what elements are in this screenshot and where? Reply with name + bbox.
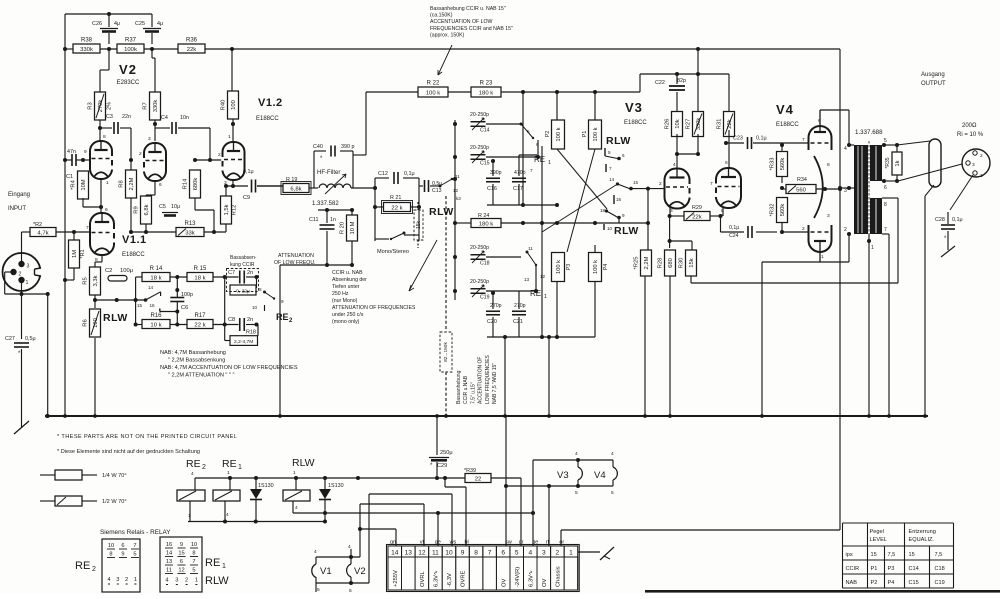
svg-text:C6: C6 [181, 305, 188, 311]
svg-text:270k: 270k [98, 100, 104, 113]
svg-text:100 k: 100 k [593, 127, 599, 141]
svg-text:20-250p: 20-250p [470, 279, 489, 285]
svg-text:6: 6 [884, 185, 887, 191]
svg-text:9: 9 [461, 549, 465, 556]
svg-text:560k: 560k [780, 158, 786, 171]
svg-text:R27: R27 [686, 119, 692, 130]
svg-text:4: 4 [226, 512, 229, 518]
svg-text:1: 1 [228, 134, 231, 140]
svg-text:100: 100 [231, 100, 237, 110]
svg-text:RLW: RLW [606, 135, 631, 147]
svg-text:100 k: 100 k [556, 127, 562, 141]
svg-text:" 2,2M ATTENUATION ": " 2,2M ATTENUATION " " " [168, 373, 234, 379]
svg-text:R34: R34 [797, 177, 807, 183]
svg-text:22n: 22n [122, 114, 131, 120]
svg-text:C4: C4 [161, 115, 168, 121]
svg-text:14: 14 [166, 551, 172, 557]
svg-text:R5: R5 [83, 277, 89, 284]
svg-text:E188CC: E188CC [122, 252, 145, 258]
svg-text:k3: k3 [456, 196, 461, 201]
svg-text:*R35: *R35 [885, 157, 891, 168]
svg-text:20-250p: 20-250p [470, 112, 489, 118]
svg-text:C23: C23 [733, 136, 743, 142]
svg-text:1: 1 [26, 280, 29, 286]
svg-text:15: 15 [871, 552, 877, 558]
svg-text:5: 5 [515, 549, 519, 556]
svg-text:4: 4 [528, 549, 532, 556]
svg-text:0,1μ: 0,1μ [404, 171, 415, 177]
svg-text:NAB: 4,7M ACCENTUATION OF LO: NAB: 4,7M ACCENTUATION OF LOW FREQUENCIE… [160, 365, 298, 371]
svg-text:270p: 270p [514, 303, 526, 309]
svg-text:(nur Mono): (nur Mono) [332, 298, 358, 304]
svg-text:CCIR u. NAB: CCIR u. NAB [332, 270, 363, 276]
svg-text:560: 560 [796, 187, 807, 193]
svg-text:10μ: 10μ [171, 204, 180, 210]
svg-text:1S130: 1S130 [328, 483, 344, 489]
svg-text:C27: C27 [5, 336, 15, 342]
svg-text:22 k: 22 k [194, 322, 205, 328]
svg-text:V2: V2 [354, 566, 366, 577]
svg-text:E188CC: E188CC [776, 122, 799, 128]
svg-text:RE: RE [276, 312, 289, 322]
svg-text:RLW: RLW [429, 206, 454, 218]
svg-text:NAB: 4,7M Bassanhebung: NAB: 4,7M Bassanhebung [160, 350, 226, 356]
svg-text:180 k: 180 k [479, 90, 493, 96]
svg-text:3: 3 [148, 136, 151, 142]
svg-text:Bassabsen-: Bassabsen- [230, 255, 257, 261]
svg-text:E283CC: E283CC [117, 80, 140, 86]
svg-text:V4: V4 [594, 470, 606, 481]
svg-text:9: 9 [84, 149, 87, 155]
svg-text:10n: 10n [180, 115, 189, 121]
svg-text:4μ: 4μ [114, 21, 120, 27]
svg-text:33k: 33k [185, 230, 195, 236]
svg-text:2: 2 [19, 272, 22, 278]
svg-text:22k: 22k [187, 47, 197, 53]
svg-text:C16: C16 [487, 186, 497, 192]
svg-text:4: 4 [295, 505, 298, 511]
svg-text:1S130: 1S130 [258, 483, 274, 489]
svg-text:C9: C9 [243, 195, 250, 201]
svg-text:C28: C28 [935, 217, 945, 223]
svg-text:250μ: 250μ [440, 450, 453, 456]
svg-text:3: 3 [542, 549, 546, 556]
svg-text:4: 4 [673, 162, 676, 168]
svg-text:1: 1 [548, 160, 551, 166]
svg-text:0,1μ: 0,1μ [243, 169, 254, 175]
svg-text:22k: 22k [727, 119, 733, 128]
svg-text:ATTENUATION: ATTENUATION [278, 253, 314, 259]
svg-text:1M: 1M [72, 250, 78, 258]
svg-text:Bassanhebung: Bassanhebung [456, 370, 462, 404]
svg-text:R16: R16 [150, 313, 162, 319]
svg-text:22 k: 22 k [391, 205, 402, 211]
svg-text:R28: R28 [658, 258, 664, 269]
svg-text:7: 7 [802, 137, 805, 143]
svg-text:6: 6 [622, 153, 625, 158]
svg-text:7,5" u.15": 7,5" u.15" [470, 382, 476, 404]
svg-text:9: 9 [622, 213, 625, 218]
svg-text:1: 1 [238, 464, 242, 471]
svg-text:EQUALIZ.: EQUALIZ. [909, 537, 935, 543]
svg-text:7: 7 [488, 549, 492, 556]
svg-text:10: 10 [191, 542, 197, 548]
svg-text:4: 4 [611, 451, 614, 457]
svg-text:Ri = 10 %: Ri = 10 % [957, 132, 984, 138]
svg-text:7: 7 [710, 181, 713, 187]
svg-text:R31: R31 [717, 119, 723, 130]
svg-text:7: 7 [86, 225, 89, 231]
svg-text:12: 12 [418, 549, 426, 556]
svg-text:6: 6 [121, 543, 124, 549]
svg-text:2: 2 [125, 577, 128, 583]
svg-text:1: 1 [227, 470, 230, 476]
svg-text:12: 12 [178, 568, 184, 574]
svg-text:C18: C18 [480, 261, 490, 267]
svg-text:R 22: R 22 [427, 81, 440, 87]
svg-text:2,2M: 2,2M [129, 177, 135, 190]
svg-text:100μ: 100μ [120, 268, 133, 274]
svg-text:8: 8 [259, 287, 262, 292]
svg-text:P1: P1 [871, 566, 878, 572]
svg-text:RE: RE [530, 289, 541, 298]
svg-text:11: 11 [528, 246, 533, 251]
svg-text:C29: C29 [437, 463, 447, 469]
svg-text:10M: 10M [81, 179, 87, 190]
svg-text:5: 5 [611, 490, 614, 496]
svg-text:kung CCIR: kung CCIR [230, 262, 255, 268]
svg-text:14: 14 [609, 177, 615, 182]
svg-text:C17: C17 [513, 186, 523, 192]
svg-text:ips: ips [846, 552, 853, 558]
svg-text:8: 8 [103, 134, 106, 140]
svg-text:1: 1 [569, 549, 573, 556]
svg-text:+255V: +255V [393, 570, 399, 587]
svg-text:Mono/Stereo: Mono/Stereo [377, 249, 409, 255]
svg-text:R40: R40 [221, 100, 227, 111]
svg-text:R17: R17 [194, 313, 206, 319]
svg-text:R14: R14 [183, 178, 189, 189]
svg-text:15: 15 [633, 180, 639, 185]
svg-text:6,8k: 6,8k [290, 186, 301, 192]
svg-text:2: 2 [844, 227, 847, 233]
svg-text:(mono only): (mono only) [332, 319, 360, 325]
svg-text:C15: C15 [909, 580, 919, 586]
svg-text:2: 2 [185, 578, 188, 584]
svg-text:6: 6 [818, 118, 821, 124]
svg-text:10 k: 10 k [150, 322, 161, 328]
svg-text:R29: R29 [692, 205, 702, 211]
svg-text:12: 12 [453, 188, 459, 193]
svg-text:20-250p: 20-250p [470, 245, 489, 251]
svg-text:9: 9 [121, 552, 124, 558]
svg-text:4: 4 [191, 471, 194, 477]
svg-text:V1.1: V1.1 [122, 234, 147, 246]
svg-text:RLW: RLW [614, 225, 639, 237]
svg-text:C5: C5 [159, 204, 166, 210]
svg-text:6: 6 [501, 549, 505, 556]
svg-text:R7: R7 [143, 102, 149, 109]
svg-text:C15: C15 [480, 161, 490, 167]
svg-text:1: 1 [222, 563, 226, 570]
svg-text:16: 16 [150, 303, 156, 308]
svg-text:V2: V2 [119, 62, 137, 77]
svg-text:1,5k: 1,5k [224, 204, 230, 215]
svg-text:R30: R30 [679, 258, 685, 269]
svg-text:11: 11 [166, 568, 172, 574]
svg-text:P3: P3 [888, 566, 895, 572]
svg-text:680k: 680k [193, 178, 199, 191]
svg-text:Ausgang: Ausgang [921, 72, 945, 78]
svg-text:7: 7 [884, 227, 887, 233]
svg-text:3: 3 [116, 577, 119, 583]
svg-text:Siemens Relais - RELAY: Siemens Relais - RELAY [100, 529, 171, 536]
svg-text:OUTPUT: OUTPUT [921, 81, 946, 87]
svg-text:1: 1 [544, 294, 547, 300]
svg-text:3: 3 [827, 213, 830, 219]
svg-text:8: 8 [474, 549, 478, 556]
svg-text:INPUT: INPUT [8, 206, 26, 212]
svg-text:Chassis: Chassis [556, 566, 562, 587]
svg-text:7: 7 [192, 559, 195, 565]
svg-text:1: 1 [106, 180, 109, 186]
svg-text:9: 9 [281, 299, 284, 304]
svg-text:*R32: *R32 [770, 204, 776, 217]
svg-text:HF-Filter: HF-Filter [317, 170, 340, 176]
svg-text:Absenkung der: Absenkung der [332, 277, 367, 283]
svg-text:*R25: *R25 [634, 257, 640, 270]
svg-text:ACCENTUATION OF LOW: ACCENTUATION OF LOW [430, 19, 493, 25]
svg-text:12: 12 [540, 274, 546, 279]
svg-text:FREQUENCIES CCIR and NAB 1: FREQUENCIES CCIR and NAB 15" [430, 26, 513, 32]
svg-text:R36: R36 [186, 38, 198, 44]
svg-text:R 20: R 20 [340, 222, 346, 234]
svg-text:3: 3 [175, 578, 178, 584]
svg-text:330k: 330k [80, 47, 93, 53]
svg-text:4: 4 [107, 577, 110, 583]
svg-text:390 p: 390 p [341, 144, 355, 150]
svg-text:RLW: RLW [292, 457, 315, 469]
svg-text:RE: RE [534, 155, 545, 164]
svg-text:4: 4 [314, 549, 317, 555]
svg-text:C11: C11 [309, 217, 319, 223]
svg-text:* THESE PARTS ARE NOT ON: * THESE PARTS ARE NOT ON THE PRINTED CIR… [57, 434, 237, 440]
svg-text:*R1: *R1 [80, 250, 86, 259]
svg-text:-24V(R): -24V(R) [515, 567, 521, 587]
svg-text:5: 5 [575, 490, 578, 496]
svg-text:200Ω: 200Ω [962, 123, 977, 129]
svg-text:C25: C25 [135, 21, 145, 27]
svg-text:4: 4 [348, 544, 351, 550]
svg-text:P4: P4 [603, 264, 609, 271]
svg-text:18 k: 18 k [150, 275, 161, 281]
svg-text:560k: 560k [780, 204, 786, 217]
svg-text:ATTENUATION OF FREQUENCIES: ATTENUATION OF FREQUENCIES [332, 305, 416, 311]
svg-text:3: 3 [27, 264, 30, 270]
svg-text:0,1μ: 0,1μ [952, 217, 963, 223]
svg-text:" 2,2M Bassabsenkung: " 2,2M Bassabsenkung [168, 358, 225, 364]
svg-text:270p: 270p [490, 303, 502, 309]
svg-text:82...150k: 82...150k [443, 342, 449, 362]
svg-text:100 k: 100 k [593, 260, 599, 274]
svg-text:(ca.150K): (ca.150K) [430, 13, 453, 19]
svg-text:V4: V4 [776, 102, 794, 117]
svg-text:P2: P2 [545, 131, 551, 138]
svg-text:6: 6 [180, 559, 183, 565]
svg-text:15: 15 [178, 551, 184, 557]
svg-text:7,5: 7,5 [935, 552, 943, 558]
svg-text:7: 7 [133, 543, 136, 549]
svg-text:under 250 c/s: under 250 c/s [332, 312, 364, 318]
svg-text:C13: C13 [432, 188, 442, 194]
svg-text:15k: 15k [416, 220, 422, 229]
svg-text:9: 9 [180, 542, 183, 548]
svg-text:C12: C12 [378, 171, 388, 177]
svg-text:1/2 W 70°: 1/2 W 70° [102, 499, 127, 505]
svg-text:1: 1 [293, 470, 296, 476]
svg-text:180 k: 180 k [479, 221, 493, 227]
svg-text:2n: 2n [247, 317, 253, 323]
svg-text:R37: R37 [125, 38, 137, 44]
svg-text:2: 2 [202, 464, 206, 471]
svg-text:OV: OV [542, 578, 548, 587]
svg-text:250 Hz: 250 Hz [332, 291, 349, 297]
svg-text:4: 4 [844, 146, 847, 152]
svg-text:5: 5 [317, 587, 320, 593]
svg-text:330k: 330k [153, 100, 159, 113]
svg-text:OVRL: OVRL [420, 570, 426, 587]
svg-text:LOW FREQUENCIES: LOW FREQUENCIES [485, 354, 491, 404]
svg-text:1.337.688: 1.337.688 [855, 129, 883, 136]
svg-text:3: 3 [844, 188, 847, 194]
svg-text:2n: 2n [247, 270, 253, 276]
svg-text:*R4: *R4 [71, 179, 77, 189]
svg-text:V1: V1 [320, 566, 332, 577]
svg-text:5: 5 [133, 552, 136, 558]
svg-text:P4: P4 [888, 580, 895, 586]
svg-text:(approx. 150K): (approx. 150K) [430, 32, 465, 38]
svg-text:10: 10 [445, 549, 453, 556]
svg-text:22: 22 [475, 476, 482, 482]
svg-text:C21: C21 [513, 319, 523, 325]
svg-text:2%: 2% [107, 102, 113, 110]
svg-text:6: 6 [159, 182, 162, 188]
svg-text:C19: C19 [480, 295, 490, 301]
svg-text:OVRE: OVRE [461, 570, 467, 587]
svg-text:-6,3V: -6,3V [447, 573, 453, 587]
svg-text:13: 13 [166, 559, 172, 565]
svg-text:Tiefen unter: Tiefen unter [332, 284, 360, 290]
svg-text:4: 4 [165, 578, 168, 584]
svg-text:10k: 10k [675, 119, 681, 128]
svg-text:Entzerrung: Entzerrung [909, 529, 936, 535]
svg-text:6: 6 [105, 207, 108, 213]
svg-text:P2: P2 [871, 580, 878, 586]
svg-text:1: 1 [980, 173, 983, 179]
svg-text:RE: RE [186, 458, 201, 470]
svg-text:R3: R3 [88, 102, 94, 109]
svg-text:R 23: R 23 [480, 81, 493, 87]
svg-text:C8: C8 [228, 317, 235, 323]
svg-text:E188CC: E188CC [256, 116, 279, 122]
svg-text:6,3V∿: 6,3V∿ [434, 570, 440, 587]
svg-text:RLW: RLW [103, 312, 128, 324]
svg-text:R26: R26 [665, 119, 671, 130]
svg-text:* Diese Elemente sind nicht: * Diese Elemente sind nicht auf der gedr… [57, 449, 200, 455]
svg-text:C1: C1 [66, 174, 73, 180]
svg-text:8: 8 [109, 552, 112, 558]
svg-text:R12: R12 [232, 205, 238, 216]
svg-text:R18: R18 [246, 330, 256, 336]
svg-text:R38: R38 [81, 38, 93, 44]
svg-text:1: 1 [195, 578, 198, 584]
svg-text:7: 7 [609, 166, 612, 171]
svg-text:20-250p: 20-250p [470, 145, 489, 151]
svg-text:CCIR u.NAB: CCIR u.NAB [463, 375, 469, 404]
svg-text:NAB: NAB [846, 580, 858, 586]
svg-text:R6: R6 [83, 319, 89, 326]
svg-text:1n: 1n [330, 217, 336, 223]
svg-text:1/4 W 70°: 1/4 W 70° [102, 473, 127, 479]
svg-text:5: 5 [527, 129, 530, 134]
svg-text:P1: P1 [582, 131, 588, 138]
svg-text:4,7k: 4,7k [37, 230, 48, 236]
svg-text:10: 10 [108, 543, 114, 549]
svg-text:C14: C14 [909, 566, 919, 572]
svg-text:6: 6 [725, 160, 728, 166]
svg-text:2: 2 [139, 151, 142, 157]
svg-text:RLW: RLW [205, 575, 229, 587]
svg-text:1: 1 [871, 245, 874, 251]
svg-text:14: 14 [391, 549, 399, 556]
svg-text:Bassanhebung CCIR u. NAB 15": Bassanhebung CCIR u. NAB 15" [430, 6, 506, 12]
svg-text:390p: 390p [490, 170, 502, 176]
svg-text:C18: C18 [935, 566, 945, 572]
svg-text:180: 180 [93, 318, 99, 328]
svg-text:0,1μ: 0,1μ [729, 225, 739, 231]
svg-text:0,1μ: 0,1μ [756, 136, 767, 142]
svg-text:C22: C22 [655, 80, 665, 86]
svg-text:0, 22μ: 0, 22μ [236, 289, 250, 295]
svg-text:R 15: R 15 [194, 266, 207, 272]
svg-text:R 14: R 14 [150, 266, 163, 272]
svg-text:1k: 1k [895, 160, 901, 166]
svg-text:C19: C19 [935, 580, 945, 586]
svg-text:RE: RE [205, 557, 220, 569]
svg-text:R8: R8 [119, 180, 125, 187]
svg-text:4: 4 [575, 451, 578, 457]
svg-text:C26: C26 [92, 21, 102, 27]
svg-text:10 M: 10 M [350, 221, 356, 234]
svg-text:2: 2 [92, 566, 96, 573]
svg-text:R13: R13 [184, 221, 196, 227]
svg-text:13: 13 [524, 277, 530, 282]
svg-text:ACCENTUATION OF: ACCENTUATION OF [478, 357, 484, 404]
svg-text:CCIR: CCIR [846, 566, 860, 572]
svg-text:11: 11 [432, 549, 439, 556]
svg-text:LEVEL: LEVEL [870, 537, 887, 543]
svg-text:15: 15 [909, 552, 915, 558]
svg-text:RE: RE [75, 560, 90, 572]
svg-text:E188CC: E188CC [624, 120, 647, 126]
svg-text:100k: 100k [124, 47, 137, 53]
svg-text:OF LOW FREQU.: OF LOW FREQU. [274, 260, 316, 266]
svg-text:2: 2 [980, 153, 983, 159]
svg-text:6,8k: 6,8k [144, 204, 150, 215]
svg-text:1: 1 [821, 254, 824, 260]
svg-text:P3: P3 [566, 264, 572, 271]
svg-text:C40: C40 [313, 144, 323, 150]
